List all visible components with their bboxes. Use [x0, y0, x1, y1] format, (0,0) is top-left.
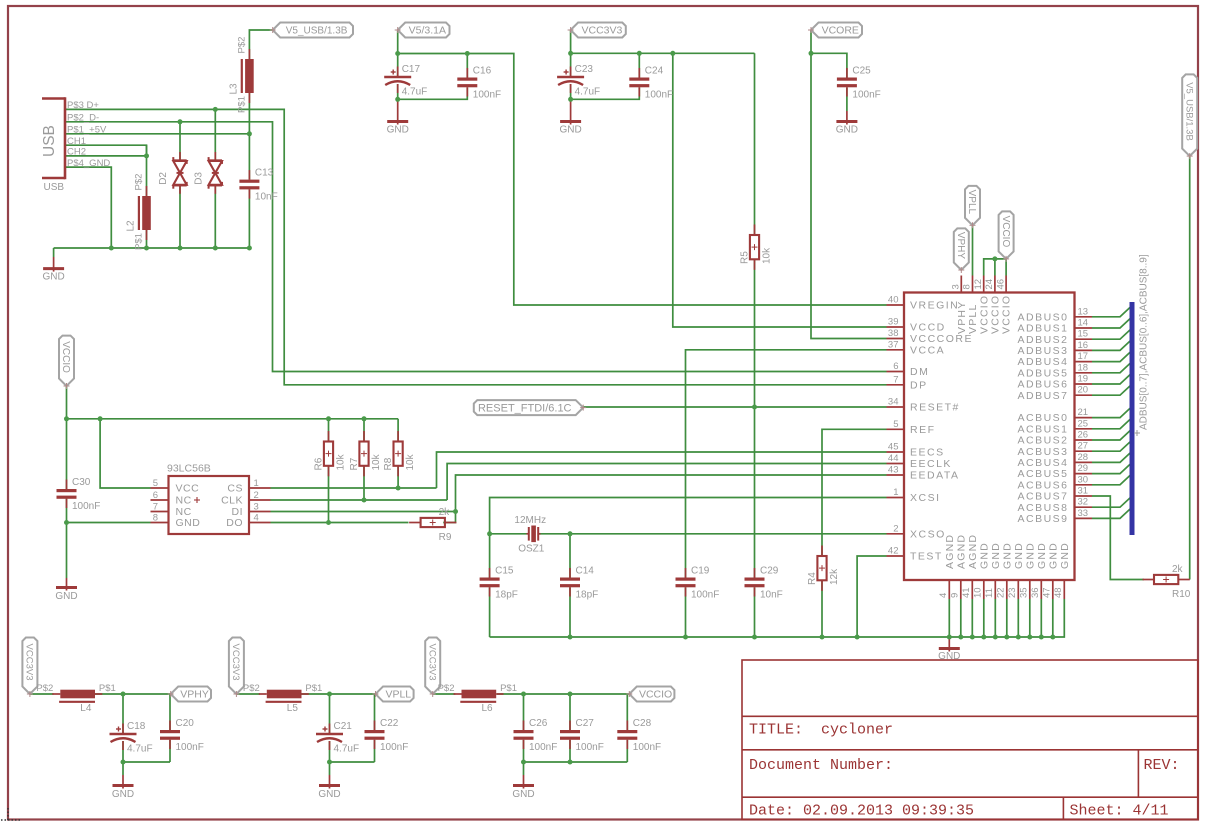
wire C16 top: [466, 54, 468, 78]
svg-text:V5_USB/1.3B: V5_USB/1.3B: [1183, 82, 1194, 141]
wire C22 bottom: [374, 740, 376, 762]
svg-text:25: 25: [1078, 418, 1089, 429]
svg-text:37: 37: [888, 339, 899, 350]
svg-text:19: 19: [1078, 374, 1089, 385]
wire VCORE to C25: [811, 53, 847, 77]
svg-text:100nF: 100nF: [380, 742, 408, 753]
wire C30 to EEPROM GND: [67, 522, 151, 524]
supply flag V5_USB/1.3B: [270, 23, 353, 38]
svg-text:C14: C14: [576, 566, 595, 577]
wire C15 column: [489, 534, 491, 637]
wire C26 column: [523, 694, 525, 762]
svg-text:C16: C16: [473, 66, 492, 77]
svg-text:100nF: 100nF: [645, 90, 673, 101]
wire VCC3V3 to L4: [30, 693, 54, 695]
svg-text:L5: L5: [287, 703, 299, 714]
supply flag VCC3V3 b2: [229, 638, 244, 698]
svg-text:GND: GND: [990, 542, 1002, 569]
svg-text:USB: USB: [41, 125, 58, 157]
ground symbol below chip: [938, 637, 960, 662]
svg-text:ACBUS4: ACBUS4: [1017, 457, 1068, 469]
svg-text:43: 43: [888, 465, 899, 476]
wire crystal right to XCSO: [539, 533, 887, 535]
svg-text:GND: GND: [387, 125, 409, 136]
inductor L5: [243, 683, 322, 714]
svg-text:7: 7: [893, 374, 898, 385]
svg-text:18pF: 18pF: [576, 590, 599, 601]
EEPROM U2 93LC56B: [151, 463, 271, 535]
svg-text:39: 39: [888, 317, 899, 328]
wire C18 column: [122, 694, 124, 762]
supply flag VCCIO left: [59, 336, 74, 389]
wire crystal left: [490, 533, 527, 535]
svg-text:VPLL: VPLL: [966, 190, 977, 215]
svg-text:EEDATA: EEDATA: [910, 470, 959, 482]
svg-text:5: 5: [153, 478, 158, 489]
svg-text:VCC3V3: VCC3V3: [230, 644, 241, 681]
svg-text:R4: R4: [807, 572, 818, 585]
supply flag VPLL: [965, 186, 980, 228]
wire CLK row: [271, 499, 448, 501]
svg-text:TEST: TEST: [910, 551, 943, 563]
supply flag VCCIO top: [999, 211, 1014, 262]
capacitor C19: [676, 566, 720, 601]
svg-text:44: 44: [888, 453, 899, 464]
supply flag net label RESET_FTDI/6.1C: [474, 400, 586, 415]
svg-text:12MHz: 12MHz: [514, 515, 546, 526]
capacitor C14: [560, 566, 598, 601]
svg-text:100nF: 100nF: [691, 590, 719, 601]
svg-text:ACBUS7: ACBUS7: [1017, 491, 1068, 503]
svg-text:29: 29: [1078, 463, 1089, 474]
wire C21 column: [329, 694, 331, 762]
wire VCCIO pin 12: [984, 259, 1006, 276]
svg-text:4: 4: [938, 593, 949, 598]
svg-text:VCCA: VCCA: [910, 344, 945, 356]
wire VCCIO rail: [67, 418, 399, 420]
svg-text:C15: C15: [495, 566, 514, 577]
svg-text:CLK: CLK: [221, 495, 243, 507]
svg-text:18: 18: [1078, 362, 1089, 373]
svg-text:100nF: 100nF: [72, 501, 100, 512]
wire R8 top: [397, 419, 399, 442]
svg-text:R7: R7: [349, 457, 360, 470]
wire XCSI to crystal: [490, 498, 887, 534]
supply flag VCC3V3 top: [568, 23, 626, 38]
svg-text:ADBUS3: ADBUS3: [1017, 345, 1068, 357]
svg-text:10k: 10k: [405, 453, 416, 470]
wire C30 column: [66, 419, 68, 523]
svg-text:100nF: 100nF: [633, 742, 661, 753]
resistor R6: [314, 431, 347, 476]
wire L3 bottom to +5V: [248, 93, 250, 134]
supply flag V5_USB/1.3B right: [1182, 74, 1197, 159]
svg-text:P$2: P$2: [36, 683, 53, 694]
wire VCCIO drop to C28: [626, 694, 628, 730]
wire +5V row: [65, 133, 249, 135]
svg-text:VCCIO: VCCIO: [990, 295, 1002, 334]
wire C29 bottom: [754, 587, 756, 637]
svg-text:VCCIO: VCCIO: [978, 295, 990, 334]
svg-text:17: 17: [1078, 351, 1089, 362]
wires chip bottom GND pins: [949, 599, 1053, 637]
svg-text:GND: GND: [176, 517, 201, 529]
supply flag V5/3.1A: [395, 23, 450, 38]
svg-text:ADBUS5: ADBUS5: [1017, 367, 1068, 379]
svg-text:4.7uF: 4.7uF: [127, 744, 153, 755]
svg-text:93LC56B: 93LC56B: [167, 463, 211, 475]
wire ACBUS7 to R10: [1092, 496, 1144, 580]
svg-text:10k: 10k: [762, 247, 773, 264]
supply flag VCC3V3 b1: [22, 638, 37, 698]
wire VCC3V3 branch to VCCD: [673, 53, 887, 327]
svg-text:18pF: 18pF: [495, 590, 518, 601]
svg-text:VCC3V3: VCC3V3: [24, 644, 35, 681]
svg-text:L6: L6: [482, 703, 494, 714]
svg-text:C13: C13: [255, 168, 274, 179]
svg-text:10: 10: [973, 587, 984, 598]
svg-text:26: 26: [1078, 430, 1089, 441]
wire L2 bottom: [146, 230, 148, 248]
wire C14 column: [569, 534, 571, 637]
svg-text:VPHY: VPHY: [955, 232, 966, 260]
svg-text:C24: C24: [645, 66, 664, 77]
supply flag VPHY: [954, 228, 969, 273]
svg-text:VPHY: VPHY: [180, 689, 209, 701]
wire R10 to V5_USB flag: [1189, 156, 1191, 579]
wire VCORE branch to VCCCORE: [811, 53, 887, 338]
ground symbol section1: [112, 775, 134, 800]
USB connector: [41, 97, 110, 193]
svg-text:C17: C17: [402, 64, 421, 75]
svg-text:GND: GND: [1001, 542, 1013, 569]
svg-text:C18: C18: [127, 721, 146, 732]
svg-text:P$1: P$1: [134, 233, 145, 250]
FTDI chip U1: [887, 276, 1093, 600]
inductor L3: [228, 37, 253, 113]
svg-text:V5_USB/1.3B: V5_USB/1.3B: [286, 26, 348, 37]
wire section1 gnd stub: [122, 762, 124, 775]
wire rail to GND symbol: [53, 248, 55, 257]
svg-text:R10: R10: [1172, 589, 1191, 600]
svg-text:ACBUS8: ACBUS8: [1017, 502, 1068, 514]
svg-text:31: 31: [1078, 486, 1089, 497]
svg-text:8: 8: [153, 512, 158, 523]
wire VPLL pin 8: [972, 225, 974, 275]
svg-text:GND: GND: [978, 542, 990, 569]
wire L6 to VCCIO: [497, 693, 630, 695]
wire C24 top: [638, 53, 640, 77]
svg-text:24: 24: [984, 279, 995, 290]
svg-text:P$2: P$2: [438, 683, 455, 694]
svg-text:GND: GND: [112, 789, 134, 800]
svg-text:1: 1: [254, 478, 259, 489]
svg-text:P$1_+5V: P$1_+5V: [67, 124, 107, 135]
resistor R5: [740, 225, 773, 270]
svg-text:45: 45: [888, 442, 899, 453]
polarized capacitor C21: [316, 721, 359, 755]
svg-text:ACBUS0: ACBUS0: [1017, 412, 1068, 424]
svg-text:P$2_D-: P$2_D-: [67, 112, 99, 123]
inductor L4: [36, 683, 115, 714]
svg-text:XCSO: XCSO: [910, 528, 946, 540]
svg-text:C19: C19: [691, 566, 710, 577]
svg-text:27: 27: [1078, 441, 1089, 452]
wire VCC3V3 to L6: [433, 693, 456, 695]
wire C27 column: [569, 694, 571, 762]
svg-text:ACBUS1: ACBUS1: [1017, 423, 1068, 435]
supply flag VCC3V3 b3: [425, 638, 440, 698]
svg-text:VPLL: VPLL: [385, 689, 411, 701]
wire C28 bottom: [626, 740, 628, 762]
wire L4 to VPHY: [95, 693, 171, 695]
supply flag VCORE: [808, 23, 862, 38]
resistor R8: [383, 431, 416, 476]
svg-text:38: 38: [888, 328, 899, 339]
svg-text:11: 11: [984, 588, 995, 598]
svg-text:V5/3.1A: V5/3.1A: [409, 25, 446, 37]
svg-text:P$2: P$2: [236, 37, 247, 54]
polarized capacitor C18: [110, 721, 153, 755]
wire D2 pins: [179, 122, 181, 248]
svg-text:6: 6: [893, 361, 898, 372]
svg-text:RESET#: RESET#: [910, 402, 960, 414]
svg-text:R8: R8: [383, 457, 394, 470]
svg-text:Document Number:: Document Number:: [749, 757, 893, 774]
svg-text:16: 16: [1078, 340, 1089, 351]
wire EEDATA to DI: [456, 475, 887, 512]
svg-text:ACBUS9: ACBUS9: [1017, 513, 1068, 525]
svg-text:C23: C23: [575, 64, 594, 75]
svg-text:CH2: CH2: [67, 147, 86, 158]
svg-text:VPHY: VPHY: [956, 301, 968, 334]
svg-text:35: 35: [1019, 587, 1030, 598]
svg-text:VCORE: VCORE: [822, 25, 859, 37]
svg-text:VCCIO: VCCIO: [639, 689, 672, 701]
svg-text:GND: GND: [1059, 542, 1071, 569]
wire REF to R4: [822, 429, 887, 556]
crystal OSZ1 12MHz: [514, 515, 546, 555]
svg-text:GND: GND: [42, 272, 64, 283]
svg-text:DM: DM: [910, 366, 929, 378]
ground symbol section2: [318, 775, 340, 800]
wire CH1: [65, 145, 147, 156]
wire R7 column: [363, 419, 365, 500]
svg-text:6: 6: [153, 490, 158, 501]
svg-text:GND: GND: [1013, 542, 1025, 569]
wire section2 ground link: [330, 761, 375, 763]
svg-text:D2: D2: [158, 172, 169, 185]
svg-text:OSZ1: OSZ1: [518, 544, 545, 555]
svg-text:DP: DP: [910, 379, 928, 391]
svg-text:GND: GND: [1047, 542, 1059, 569]
svg-text:ACBUS5: ACBUS5: [1017, 468, 1068, 480]
svg-text:RESET_FTDI/6.1C: RESET_FTDI/6.1C: [478, 402, 572, 414]
ground symbol below C30: [55, 578, 77, 602]
svg-text:100nF: 100nF: [473, 90, 501, 101]
wire VCCIO pin 46: [1005, 259, 1007, 276]
svg-text:NC: NC: [176, 495, 192, 507]
capacitor C20: [160, 718, 204, 753]
svg-text:47: 47: [1042, 587, 1053, 598]
svg-text:2k: 2k: [1172, 564, 1184, 575]
svg-text:EECS: EECS: [910, 447, 945, 459]
svg-text:P$2: P$2: [243, 683, 260, 694]
wire C23 pins: [570, 53, 572, 99]
svg-text:7: 7: [153, 501, 158, 512]
svg-text:DO: DO: [226, 517, 243, 529]
svg-text:4.7uF: 4.7uF: [334, 744, 360, 755]
svg-text:8: 8: [962, 284, 973, 289]
wires ADBUS/ACBUS to bus: [1092, 306, 1132, 519]
svg-text:VCCD: VCCD: [910, 322, 946, 334]
svg-text:VCCIO: VCCIO: [1000, 216, 1011, 248]
svg-text:20: 20: [1078, 385, 1089, 396]
wire DI row: [271, 511, 456, 513]
svg-text:10k: 10k: [371, 453, 382, 470]
title block: [742, 660, 1198, 820]
wire C17 pins: [397, 54, 399, 100]
wire USB ground rail: [54, 247, 250, 249]
wire VCORE flag drop: [810, 30, 812, 53]
capacitor C15: [480, 566, 518, 601]
svg-text:ADBUS7: ADBUS7: [1017, 390, 1068, 402]
svg-text:2: 2: [254, 490, 259, 501]
wire EECLK to CLK: [447, 464, 886, 501]
svg-text:L3: L3: [228, 83, 239, 95]
svg-text:23: 23: [1007, 587, 1018, 598]
svg-text:CH1: CH1: [67, 136, 86, 147]
svg-text:34: 34: [888, 397, 899, 408]
svg-text:10k: 10k: [336, 453, 347, 470]
ground symbol below C17: [387, 99, 409, 135]
capacitor C29: [745, 566, 783, 601]
svg-text:ACBUS3: ACBUS3: [1017, 446, 1068, 458]
wire L5 to VPLL: [301, 693, 376, 695]
svg-text:ADBUS4: ADBUS4: [1017, 356, 1068, 368]
svg-text:P$3 D+: P$3 D+: [67, 100, 99, 111]
wire R8 bottom: [397, 466, 399, 488]
wire VCC3V3 flag drop: [570, 30, 572, 53]
wire EECS to CS: [437, 452, 887, 488]
svg-text:46: 46: [995, 279, 1006, 290]
svg-text:4.7uF: 4.7uF: [575, 87, 601, 98]
wire VCC3V3 to L5: [236, 693, 260, 695]
svg-text:100nF: 100nF: [576, 742, 604, 753]
wire D- net from USB to DM: [65, 122, 887, 372]
svg-text:40: 40: [888, 295, 899, 306]
wire VPLL drop to C22: [374, 694, 376, 730]
resistor R4: [807, 546, 840, 591]
svg-text:30: 30: [1078, 474, 1089, 485]
wire C19 bottom: [685, 587, 687, 637]
svg-text:GND: GND: [512, 789, 534, 800]
svg-text:4.7uF: 4.7uF: [402, 87, 428, 98]
capacitor C30: [57, 477, 101, 512]
svg-text:C25: C25: [852, 66, 871, 77]
ground symbol below C23: [559, 99, 581, 135]
wire R4 bottom: [821, 580, 823, 637]
wire DI node to R9: [443, 512, 455, 523]
svg-text:P$2: P$2: [134, 174, 145, 191]
svg-text:12: 12: [973, 279, 984, 290]
svg-text:2: 2: [893, 523, 898, 534]
svg-text:ADBUS[0..7],ACBUS[0..6],ACBUS[: ADBUS[0..7],ACBUS[0..6],ACBUS[8..9]: [1139, 254, 1150, 430]
wire VCC3V3 rail to R5: [571, 52, 755, 54]
wire D+ net from USB to DP: [65, 109, 887, 384]
svg-text:ADBUS0: ADBUS0: [1017, 311, 1068, 323]
svg-text:GND: GND: [1024, 542, 1036, 569]
svg-text:22: 22: [996, 587, 1007, 598]
svg-text:Date: 02.09.2013 09:39:35: Date: 02.09.2013 09:39:35: [749, 803, 974, 820]
polarized capacitor C17: [384, 64, 427, 98]
svg-text:R5: R5: [740, 251, 751, 264]
svg-text:2k: 2k: [439, 507, 451, 518]
svg-text:AGND: AGND: [955, 534, 967, 569]
svg-text:VCCIO: VCCIO: [1001, 295, 1013, 334]
svg-text:Sheet: 4/11: Sheet: 4/11: [1070, 803, 1169, 820]
capacitor C13: [239, 168, 277, 203]
capacitor C26: [514, 718, 558, 753]
svg-text:GND: GND: [559, 125, 581, 136]
capacitor C16: [457, 66, 501, 101]
svg-text:XCSI: XCSI: [910, 492, 941, 504]
TVS diode D3: [193, 152, 222, 194]
svg-text:D3: D3: [193, 172, 204, 185]
capacitor C22: [365, 718, 409, 753]
svg-text:42: 42: [888, 546, 899, 557]
svg-text:R6: R6: [314, 457, 325, 470]
wire L2 top from CH junction: [146, 145, 148, 196]
svg-text:L4: L4: [80, 703, 92, 714]
svg-text:9: 9: [950, 593, 961, 598]
svg-text:L2: L2: [126, 220, 137, 232]
svg-text:C30: C30: [72, 477, 91, 488]
svg-text:P$4_GND: P$4_GND: [67, 158, 110, 169]
svg-text:C29: C29: [760, 566, 779, 577]
wire VCCIO flag drop: [66, 386, 68, 419]
wire C25 bottom to GND: [846, 87, 848, 111]
wire C17 to C16 bottom: [398, 87, 468, 99]
svg-text:100nF: 100nF: [176, 742, 204, 753]
svg-text:AGND: AGND: [967, 534, 979, 569]
wire section1 ground link: [123, 761, 170, 763]
svg-text:48: 48: [1053, 587, 1064, 598]
svg-text:VCC3V3: VCC3V3: [426, 644, 437, 681]
svg-text:32: 32: [1078, 497, 1089, 508]
svg-text:GND: GND: [318, 789, 340, 800]
svg-text:ADBUS2: ADBUS2: [1017, 334, 1068, 346]
wire R5 to RESET and C29: [754, 260, 756, 578]
svg-text:C28: C28: [633, 718, 652, 729]
supply flag VPHY b: [168, 687, 211, 702]
wire C13 column: [248, 134, 250, 248]
svg-text:EECLK: EECLK: [910, 458, 952, 470]
wire P$4 GND to rail: [65, 167, 111, 248]
resistor R9: [409, 507, 456, 543]
wire C30 node to GND symbol: [66, 523, 68, 579]
wire CS row: [271, 487, 437, 489]
svg-text:P$1: P$1: [500, 683, 517, 694]
svg-text:5: 5: [893, 419, 898, 430]
svg-text:C20: C20: [176, 718, 195, 729]
svg-text:VPLL: VPLL: [967, 304, 979, 335]
capacitor C28: [617, 718, 661, 753]
wire VPHY drop to C20: [169, 694, 171, 730]
svg-text:REV:: REV:: [1144, 757, 1180, 774]
svg-text:15: 15: [1078, 329, 1089, 340]
svg-text:P$1: P$1: [99, 683, 116, 694]
